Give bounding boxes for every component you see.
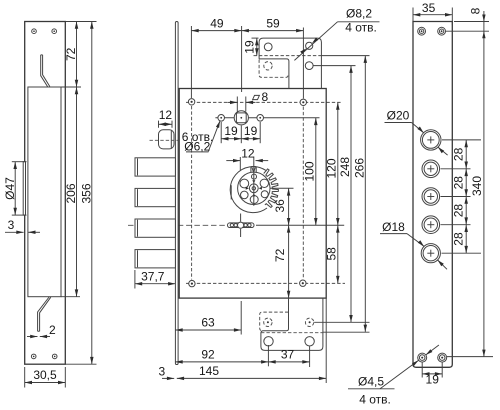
bottom bracket outline — [261, 298, 323, 350]
cylinder pin hole upper-left — [240, 179, 249, 188]
screw post bottom-left — [189, 280, 195, 286]
top bracket hole lower-right — [305, 62, 313, 70]
svg-text:Ø6,2: Ø6,2 — [184, 140, 210, 154]
svg-text:Ø20: Ø20 — [387, 108, 410, 122]
dimension 37 — [268, 361, 309, 363]
svg-text:30,5: 30,5 — [33, 368, 57, 382]
svg-text:12: 12 — [241, 146, 255, 160]
dimension 59 — [242, 30, 304, 32]
dimension 59 extension line right — [302, 28, 304, 99]
cylinder gear teeth — [264, 169, 279, 208]
cylinder rosette outer circle — [230, 167, 267, 213]
dimension 30,5 extension lines — [24, 367, 26, 388]
leader D4,5 — [380, 360, 419, 389]
dimension 35 — [413, 14, 452, 16]
cylinder collar bump on left edge — [23, 162, 25, 215]
spindle hole D6,2 left — [218, 115, 225, 122]
dimension 72 middle — [288, 225, 290, 298]
leader D18 — [407, 234, 424, 247]
svg-text:Ø47: Ø47 — [3, 177, 17, 200]
right plate D18 hole — [421, 244, 440, 263]
screw post bottom-right — [300, 280, 306, 286]
forend strip — [175, 22, 178, 365]
svg-text:92: 92 — [201, 347, 215, 361]
dimension D47 extension lines — [12, 161, 27, 163]
deadbolt 4 — [135, 250, 175, 268]
top bracket hole upper-right D8,2 — [306, 42, 313, 49]
keyway vertical centerline — [240, 214, 242, 222]
keyway center circle — [238, 222, 244, 228]
square symbol and 8 — [253, 95, 260, 99]
cylinder pin hole top small — [252, 174, 257, 179]
bottom bracket hole right — [305, 337, 314, 346]
keyway pin right outer — [248, 224, 251, 227]
svg-text:340: 340 — [470, 176, 484, 196]
dimension 19 bracket — [256, 38, 258, 56]
keyway slot — [228, 223, 255, 228]
svg-text:36: 36 — [273, 199, 287, 213]
top bracket hole lower-left hidden — [264, 62, 272, 70]
svg-text:37: 37 — [281, 347, 295, 361]
left view: faceplate outline — [25, 22, 66, 365]
fold row extension line — [321, 55, 369, 57]
cylinder pin hole upper-right — [260, 179, 268, 187]
deadbolt 1 — [135, 158, 175, 176]
dimension 49 — [191, 30, 241, 32]
right plate outline — [413, 22, 452, 368]
tab V notch — [252, 167, 255, 172]
deadbolt 3 — [135, 219, 175, 237]
right plate hole 4 — [422, 216, 440, 234]
leader D6,2 — [208, 121, 220, 152]
faceplate bottom screw hole right — [52, 354, 57, 359]
cylinder vertical centerline — [253, 157, 255, 206]
svg-text:8: 8 — [261, 90, 268, 104]
keyway pin left inner — [234, 224, 237, 227]
lock body: screw post row dashed line top — [186, 101, 341, 103]
svg-text:58: 58 — [324, 247, 338, 261]
svg-text:28: 28 — [452, 147, 466, 161]
dimension 356 — [91, 22, 93, 365]
dimension 72 extension lines — [65, 21, 96, 23]
dimension 2 arrows — [27, 336, 38, 338]
cylinder pin hole bottom — [250, 196, 258, 204]
screw post top-right — [300, 99, 306, 105]
main horizontal centerline solid part — [256, 224, 344, 226]
cylinder horizontal centerline — [259, 187, 294, 189]
right plate bottom washer hole left — [418, 353, 427, 362]
svg-text:28: 28 — [452, 176, 466, 190]
dimension 19 right plate — [422, 373, 442, 375]
svg-text:19: 19 — [224, 124, 238, 138]
svg-text:120: 120 — [325, 158, 339, 178]
dimension 63 — [175, 329, 241, 331]
svg-text:19: 19 — [244, 124, 258, 138]
dimension 356 extension line — [65, 363, 96, 365]
lock body: spindle row line — [215, 117, 319, 119]
right plate hole 2 — [422, 160, 440, 178]
dimension 248 — [350, 66, 352, 323]
svg-text:266: 266 — [352, 158, 366, 178]
body right edge extension line — [325, 298, 327, 383]
cylinder top tab — [251, 167, 256, 175]
control rod upper — [41, 55, 50, 87]
svg-text:206: 206 — [64, 183, 78, 203]
svg-text:12: 12 — [159, 108, 173, 122]
dimension 92 extension line — [267, 345, 269, 366]
dimension 12 latch — [159, 123, 173, 125]
right plate hole 3 — [422, 188, 440, 206]
dimension 28 chain — [465, 140, 467, 169]
bottom bracket hidden hole left — [264, 318, 272, 326]
dimension 19 right — [241, 138, 260, 140]
dimension 100 — [315, 118, 317, 226]
svg-text:3: 3 — [8, 218, 15, 232]
dimension 19 left — [221, 138, 241, 140]
dimension 266 — [364, 56, 366, 332]
cylinder center boss — [249, 184, 258, 193]
dimension 37,7 extension line — [134, 270, 136, 289]
dimension 3 forend arrows — [162, 377, 174, 379]
cylinder inner circle — [238, 172, 270, 204]
dimension 19 bracket extension line — [252, 37, 259, 39]
svg-text:59: 59 — [266, 17, 280, 31]
dimension 37,7 — [135, 283, 176, 285]
dimension 8 right — [483, 11, 485, 357]
svg-text:4 отв.: 4 отв. — [345, 21, 377, 35]
svg-text:Ø18: Ø18 — [382, 220, 405, 234]
right plate bottom washer hole right — [438, 353, 447, 362]
svg-text:37,7: 37,7 — [141, 269, 165, 283]
svg-text:19: 19 — [243, 40, 257, 54]
dimension D47 — [14, 162, 16, 215]
right plate top washer hole right — [438, 27, 446, 35]
dimension 30,5 — [25, 382, 66, 384]
svg-text:35: 35 — [422, 1, 436, 15]
bottom bracket hole row extension line — [314, 321, 369, 323]
top bracket hidden edge dashed — [259, 60, 288, 78]
bottom bracket fold dashed line — [261, 332, 323, 334]
dimension 36 — [288, 188, 290, 225]
dimension 12 cylinder arrows — [226, 160, 240, 162]
cylinder pin hole lower-right — [261, 191, 268, 198]
top bracket fold dashed line — [254, 55, 322, 57]
svg-text:248: 248 — [338, 157, 352, 177]
main horizontal centerline dashed part — [128, 224, 227, 226]
svg-text:Ø8,2: Ø8,2 — [346, 7, 372, 21]
control rod lower — [38, 297, 51, 331]
dimension 58 — [337, 225, 339, 283]
dimension 12 latch extension lines — [158, 121, 160, 128]
svg-text:100: 100 — [302, 161, 316, 181]
keyway pin left outer — [230, 224, 233, 227]
bracket hole row extension line — [313, 65, 355, 67]
faceplate top screw hole left — [32, 29, 37, 34]
svg-text:28: 28 — [452, 204, 466, 218]
screw post top-left — [188, 99, 194, 105]
dimension 63 extension line — [240, 301, 242, 335]
dimension 8 square: extension lines — [236, 97, 238, 112]
dimension 49 extension line left — [190, 26, 192, 98]
svg-text:3: 3 — [158, 364, 165, 378]
dimension 12 cylinder extension line — [239, 157, 241, 170]
dimension 8 square arrows — [228, 101, 238, 103]
dimension 120 — [337, 102, 339, 225]
leader D20 — [412, 123, 424, 133]
svg-text:72: 72 — [64, 47, 78, 61]
dimension 72 — [76, 22, 78, 88]
bottom bracket hidden hole right — [305, 318, 313, 326]
deadbolt 2 — [135, 188, 175, 206]
right plate top washer hole left — [418, 27, 426, 35]
svg-text:63: 63 — [201, 316, 215, 330]
svg-text:72: 72 — [273, 248, 287, 262]
top bracket hole upper-left — [264, 43, 272, 51]
dimension 92 — [175, 361, 268, 363]
svg-text:2: 2 — [49, 323, 56, 337]
latch — [159, 130, 175, 149]
svg-text:145: 145 — [199, 364, 219, 378]
dimension 19 right plate extension lines — [421, 363, 423, 378]
lock body outline — [179, 89, 326, 299]
lock body: right posts dashed centerline — [302, 107, 304, 280]
dimension 37 extension line — [309, 347, 311, 368]
spindle hole right — [257, 115, 264, 122]
svg-text:19: 19 — [426, 372, 440, 386]
dimension 206 — [76, 87, 78, 297]
spindle square hub — [234, 111, 248, 125]
dimension 35 extension lines — [412, 8, 414, 26]
latch dashed centerline — [150, 139, 179, 141]
dimension 145 — [177, 377, 326, 379]
faceplate top screw hole right — [52, 29, 57, 34]
bottom bracket hole left — [264, 337, 273, 346]
bottom fold row extension line — [323, 331, 370, 333]
faceplate inner recess rectangle — [28, 87, 61, 297]
svg-text:356: 356 — [79, 183, 93, 203]
rosette left flat — [230, 185, 232, 199]
lock body: left posts dashed centerline — [191, 106, 193, 280]
leader D8,2 — [294, 22, 337, 61]
lock body: screw post row dashed line bottom — [186, 282, 345, 284]
svg-text:8: 8 — [469, 7, 483, 14]
top bracket outline — [259, 38, 321, 88]
svg-text:Ø4,5: Ø4,5 — [358, 374, 384, 388]
bottom bracket hidden edge dashed — [260, 312, 289, 331]
faceplate bottom screw hole left — [31, 354, 36, 359]
top bracket visible step edge — [259, 59, 289, 89]
keyway pin right inner — [244, 224, 247, 227]
dimension 3 leader — [5, 231, 24, 233]
svg-text:4 отв.: 4 отв. — [359, 392, 391, 406]
svg-text:28: 28 — [452, 232, 466, 246]
dimension 340 — [482, 350, 485, 357]
dimension 19/19 extension lines — [220, 122, 222, 143]
right extension line rows — [454, 21, 489, 23]
dimension 49/59 center extension line — [241, 26, 243, 92]
svg-text:49: 49 — [210, 17, 224, 31]
cylinder pin hole lower-left — [241, 191, 249, 199]
dimension 206 extension line — [61, 296, 80, 298]
right plate D20 hole — [421, 130, 441, 150]
